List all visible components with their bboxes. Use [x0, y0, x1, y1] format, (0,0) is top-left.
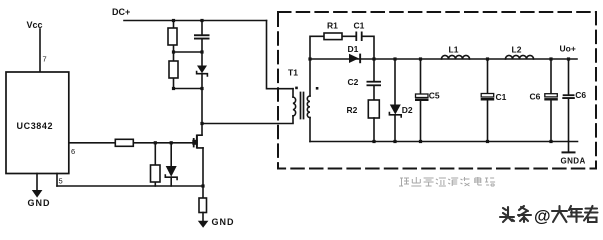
resistor gate pulldown: [154, 143, 156, 186]
node C6b top: [567, 57, 570, 60]
wire drain vertical: [201, 89, 203, 135]
svg-text:UC3842: UC3842: [17, 121, 54, 131]
svg-text:D2: D2: [402, 105, 413, 115]
svg-text:GND: GND: [212, 217, 235, 227]
wire MOSFET source down: [202, 148, 204, 198]
node top rail left: [172, 19, 175, 22]
wire snubber branch: [310, 36, 374, 59]
wire pin 7 stub: [39, 29, 41, 72]
watermark 头条@大年君: [500, 206, 598, 226]
node C6a top: [549, 57, 552, 60]
node gate 1: [154, 141, 157, 144]
svg-text:L1: L1: [449, 45, 459, 55]
node clamp mid right: [200, 50, 203, 53]
node C5 bottom: [419, 140, 422, 143]
node C6a bottom: [549, 140, 552, 143]
svg-text:6: 6: [71, 147, 75, 156]
node drain junction: [200, 122, 203, 125]
zener diode clamp: [201, 52, 203, 89]
core: [301, 93, 304, 119]
secondary winding: [309, 59, 311, 96]
resistor R2: [368, 100, 379, 118]
ground under sense resistor: [198, 221, 209, 228]
svg-text:Uo+: Uo+: [560, 44, 576, 54]
dashed box output section: [278, 12, 596, 169]
primary winding: [292, 89, 294, 97]
wire gate from pin 6: [69, 142, 194, 144]
svg-text:7: 7: [43, 55, 47, 64]
node clamp bottom right: [200, 87, 203, 90]
wire DC+ corner down to transformer: [267, 21, 294, 89]
node after D1: [372, 57, 375, 60]
caption 输出整流滤波电路 (gray): [399, 177, 495, 186]
inductor L2: [506, 55, 534, 59]
capacitor C2: [373, 59, 375, 100]
node clamp bottom left: [172, 87, 175, 90]
node C1 top: [486, 57, 489, 60]
svg-text:@: @: [534, 207, 551, 226]
transistor Q1 MOSFET: [192, 135, 203, 149]
wire return rail: [57, 185, 203, 187]
node top rail right: [200, 19, 203, 22]
svg-text:C1: C1: [354, 21, 365, 31]
node C1 bottom: [486, 140, 489, 143]
node gate 2: [170, 141, 173, 144]
zener diode gate: [170, 143, 172, 186]
svg-text:GND: GND: [28, 198, 51, 208]
svg-text:C2: C2: [348, 77, 359, 87]
resistor gate series: [115, 139, 133, 146]
resistor clamp lower: [173, 52, 175, 89]
capacitor C5: [420, 59, 422, 142]
capacitor C1 output: [487, 59, 489, 142]
inductor L1: [442, 55, 470, 59]
wire clamp node row: [174, 51, 203, 53]
svg-text:GNDA: GNDA: [561, 157, 586, 166]
node rail D2: [393, 140, 396, 143]
capacitor C6 electrolytic: [550, 59, 552, 142]
diode D2: [394, 59, 396, 142]
svg-text:D1: D1: [348, 44, 359, 54]
wire secondary main line: [310, 58, 577, 60]
ground under UC3842: [36, 174, 38, 191]
transformer T1: [288, 59, 318, 142]
svg-text:R1: R1: [327, 21, 338, 31]
node rail C2: [372, 140, 375, 143]
wire DC+ rail: [124, 20, 267, 22]
capacitor C6 film: [568, 59, 570, 142]
svg-text:C5: C5: [429, 90, 440, 100]
node clamp mid left: [172, 50, 175, 53]
resistor clamp upper: [173, 21, 175, 53]
wire clamp bottom row: [174, 88, 203, 90]
svg-text:L2: L2: [512, 45, 522, 55]
svg-text:5: 5: [59, 177, 63, 186]
phase dot secondary: [316, 87, 319, 90]
wire pin 5 stub: [56, 174, 58, 187]
node secondary top: [308, 57, 311, 60]
wire drain to transformer primary: [202, 123, 293, 125]
ground GNDA: [568, 142, 570, 152]
svg-text:DC+: DC+: [112, 7, 130, 17]
op-amp U1 UC3842 box: [6, 72, 69, 174]
resistor R1: [324, 33, 342, 40]
svg-text:T1: T1: [288, 68, 298, 78]
wire bottom rail: [310, 141, 578, 143]
svg-text:C6: C6: [575, 90, 586, 100]
resistor current sense: [199, 198, 207, 213]
capacitor C1 snubber: [355, 32, 362, 42]
svg-text:C1: C1: [496, 92, 507, 102]
svg-text:R2: R2: [347, 105, 358, 115]
node source-rail junction: [201, 184, 204, 187]
svg-text:C6: C6: [530, 91, 541, 101]
node C5 top: [419, 57, 422, 60]
diode D1: [349, 54, 359, 63]
capacitor clamp: [201, 21, 203, 53]
phase dot primary: [295, 87, 298, 90]
node D2 top: [393, 57, 396, 60]
